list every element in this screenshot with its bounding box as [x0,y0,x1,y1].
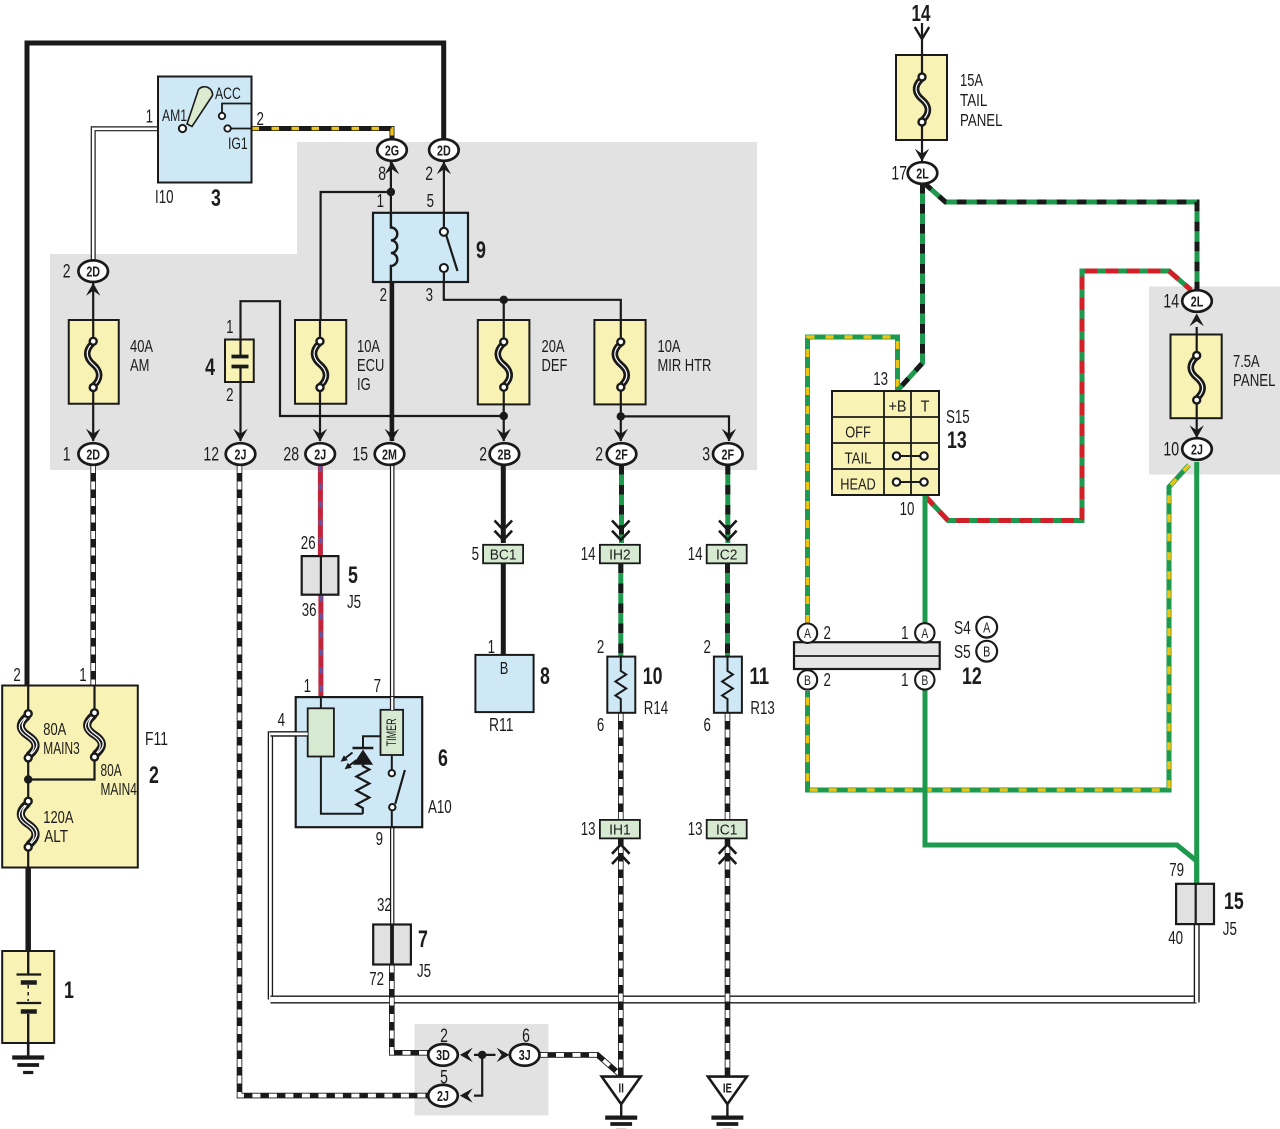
svg-text:3J: 3J [519,1048,531,1064]
svg-text:6: 6 [597,715,604,735]
svg-text:MAIN3: MAIN3 [43,738,79,758]
svg-text:2F: 2F [615,447,628,463]
svg-text:S5: S5 [954,641,971,662]
svg-text:10A: 10A [357,336,380,356]
svg-text:2: 2 [13,665,20,685]
svg-text:PANEL: PANEL [1233,370,1276,390]
svg-text:2L: 2L [916,166,929,182]
svg-text:I10: I10 [155,187,174,207]
svg-text:6: 6 [704,715,711,735]
svg-text:2J: 2J [314,447,326,463]
svg-text:PANEL: PANEL [960,110,1003,130]
svg-text:15A: 15A [960,70,983,90]
svg-text:8: 8 [540,663,550,690]
svg-text:J5: J5 [417,961,431,981]
svg-text:2D: 2D [86,265,100,281]
svg-text:10: 10 [1163,440,1179,461]
svg-text:14: 14 [688,544,703,564]
svg-text:5: 5 [472,544,479,564]
svg-text:4: 4 [205,354,215,381]
svg-text:1: 1 [901,623,908,643]
svg-text:AM: AM [130,355,149,375]
svg-text:17: 17 [891,164,907,185]
svg-text:2: 2 [704,637,711,657]
svg-text:7: 7 [418,926,428,953]
svg-text:2: 2 [380,285,387,305]
svg-text:13: 13 [688,819,703,839]
svg-text:14: 14 [912,0,931,26]
svg-text:IC1: IC1 [716,821,738,838]
svg-text:2: 2 [824,670,831,690]
svg-text:2: 2 [226,385,233,405]
svg-text:DEF: DEF [542,355,568,375]
svg-text:2: 2 [595,445,603,466]
svg-text:AM1: AM1 [162,107,187,125]
svg-text:14: 14 [581,544,596,564]
svg-text:S4: S4 [954,617,971,638]
svg-text:TAIL: TAIL [845,451,872,468]
svg-text:20A: 20A [542,336,565,356]
svg-text:10: 10 [643,663,663,690]
svg-text:5: 5 [427,191,434,211]
svg-text:7: 7 [374,676,381,696]
svg-text:28: 28 [283,445,299,466]
svg-text:13: 13 [581,819,596,839]
svg-text:2D: 2D [86,447,100,463]
svg-text:A: A [983,621,990,637]
svg-text:15: 15 [1224,888,1244,915]
svg-text:A10: A10 [428,797,452,817]
svg-text:26: 26 [301,533,316,553]
svg-text:80A: 80A [101,760,122,780]
svg-text:2: 2 [479,445,487,466]
svg-text:ACC: ACC [215,85,241,103]
svg-text:2: 2 [63,262,71,283]
svg-text:32: 32 [377,895,392,915]
svg-text:2: 2 [440,1026,448,1047]
svg-text:2F: 2F [722,447,735,463]
svg-text:A: A [921,625,928,641]
svg-text:120A: 120A [43,807,73,827]
svg-text:+B: +B [889,399,907,416]
svg-text:6: 6 [522,1026,530,1047]
svg-text:B: B [983,645,990,661]
svg-text:IH2: IH2 [609,546,631,563]
svg-text:6: 6 [438,745,448,772]
svg-text:S15: S15 [946,407,970,427]
svg-text:2B: 2B [498,447,512,463]
svg-text:A: A [804,625,811,641]
svg-text:2M: 2M [382,447,397,463]
svg-text:13: 13 [947,427,967,454]
svg-text:9: 9 [476,237,486,264]
svg-text:R13: R13 [750,698,774,718]
svg-text:J5: J5 [347,592,361,612]
svg-text:MIR HTR: MIR HTR [658,355,712,375]
svg-text:ECU: ECU [357,355,384,375]
svg-text:72: 72 [369,969,384,989]
svg-text:2J: 2J [235,447,247,463]
svg-text:R11: R11 [489,715,513,735]
svg-text:79: 79 [1169,860,1184,880]
svg-text:J5: J5 [1223,919,1237,939]
svg-text:ALT: ALT [44,826,68,846]
svg-text:3: 3 [211,185,221,212]
svg-text:80A: 80A [43,719,66,739]
svg-text:3: 3 [702,445,710,466]
svg-text:OFF: OFF [845,425,871,442]
svg-text:IG1: IG1 [228,135,248,153]
svg-text:4: 4 [278,710,285,730]
svg-text:IC2: IC2 [716,546,738,563]
svg-text:12: 12 [203,445,219,466]
svg-text:1: 1 [488,637,495,657]
svg-text:II: II [619,1081,624,1096]
svg-text:5: 5 [440,1068,448,1089]
svg-text:2L: 2L [1191,294,1204,310]
svg-text:8: 8 [378,164,386,185]
svg-text:11: 11 [749,663,769,690]
svg-text:13: 13 [873,369,888,389]
svg-text:1: 1 [63,445,71,466]
svg-text:R14: R14 [644,698,668,718]
svg-text:1: 1 [79,665,86,685]
svg-text:1: 1 [304,676,311,696]
svg-text:2: 2 [824,623,831,643]
svg-text:10A: 10A [658,336,681,356]
svg-text:1: 1 [64,977,74,1004]
svg-text:IG: IG [357,374,371,394]
svg-text:B: B [500,658,509,678]
svg-text:2J: 2J [437,1089,449,1105]
svg-text:2: 2 [257,109,264,129]
svg-text:MAIN4: MAIN4 [101,779,138,799]
svg-text:TAIL: TAIL [960,90,988,110]
svg-text:HEAD: HEAD [840,477,876,494]
svg-text:F11: F11 [145,729,168,749]
svg-text:5: 5 [348,562,358,589]
svg-text:B: B [921,672,928,688]
svg-text:TIMER: TIMER [384,718,399,746]
svg-text:40: 40 [1168,928,1183,948]
svg-text:IE: IE [723,1081,732,1096]
svg-text:15: 15 [352,445,368,466]
svg-text:7.5A: 7.5A [1233,351,1260,371]
svg-text:9: 9 [376,829,383,849]
svg-text:T: T [921,399,930,416]
svg-text:2: 2 [425,164,433,185]
svg-text:14: 14 [1163,292,1179,313]
svg-text:12: 12 [962,663,982,690]
svg-text:2J: 2J [1191,442,1203,458]
svg-text:2: 2 [597,637,604,657]
svg-text:36: 36 [302,600,317,620]
svg-text:2G: 2G [385,143,399,159]
svg-text:1: 1 [377,191,384,211]
svg-text:BC1: BC1 [490,546,517,563]
svg-text:1: 1 [146,107,153,127]
svg-text:1: 1 [226,317,233,337]
svg-text:IH1: IH1 [609,821,631,838]
svg-text:2: 2 [149,762,159,789]
svg-text:B: B [804,672,811,688]
svg-text:3D: 3D [436,1048,450,1064]
svg-text:1: 1 [901,670,908,690]
svg-text:3: 3 [426,285,433,305]
svg-text:40A: 40A [130,336,153,356]
svg-text:2D: 2D [437,143,451,159]
svg-text:10: 10 [900,499,915,519]
